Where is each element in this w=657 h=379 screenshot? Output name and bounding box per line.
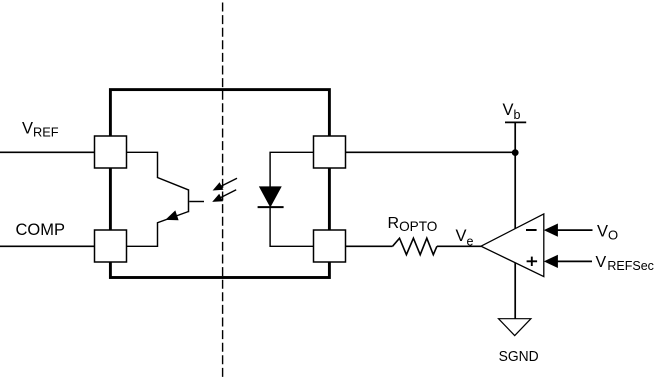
phototransistor Q1 base bar bbox=[188, 189, 190, 212]
pin pad 1 VREF bbox=[95, 136, 127, 168]
LED D1 cathode wire bbox=[270, 207, 313, 246]
wire top-right pin to Vb node bbox=[346, 151, 516, 153]
wire amplifier to ground bbox=[514, 262, 516, 318]
pin pad 2 COMP bbox=[95, 230, 127, 262]
pin pad LED cathode bbox=[314, 230, 346, 262]
svg-text:VREF: VREF bbox=[22, 120, 59, 140]
error amplifier U2 triangle bbox=[481, 214, 544, 277]
wire VREF input bbox=[0, 151, 95, 153]
phototransistor Q1 emitter arrowhead bbox=[165, 210, 178, 220]
LED D1 cathode bar bbox=[258, 206, 284, 208]
svg-text:Vb: Vb bbox=[503, 101, 521, 122]
svg-text:VREFSec: VREFSec bbox=[596, 254, 654, 273]
svg-text:COMP: COMP bbox=[16, 221, 66, 239]
phototransistor Q1 collector wire bbox=[127, 152, 189, 190]
light arrow 2 bbox=[212, 190, 236, 202]
wire resistor to Ve node bbox=[437, 245, 481, 247]
light arrow 1 bbox=[213, 178, 237, 190]
pin pad LED anode bbox=[314, 136, 346, 168]
LED D1 triangle bbox=[260, 187, 281, 207]
wire COMP input bbox=[0, 245, 95, 247]
phototransistor Q1 base stub bbox=[189, 201, 204, 203]
svg-text:Ve: Ve bbox=[456, 227, 474, 249]
wire VO input bbox=[556, 229, 593, 231]
plus input sign bbox=[527, 257, 538, 266]
wire Vb rail vertical upper bbox=[514, 122, 516, 228]
wire VREFSec input bbox=[556, 260, 592, 262]
node Vb bar bbox=[505, 121, 526, 123]
optocoupler U1 body bbox=[110, 90, 329, 278]
junction dot bbox=[512, 149, 519, 156]
svg-text:SGND: SGND bbox=[499, 348, 539, 365]
minus input sign bbox=[526, 229, 537, 231]
svg-text:ROPTO: ROPTO bbox=[388, 215, 438, 234]
wire bottom-right pin to resistor bbox=[346, 245, 393, 247]
ground SGND symbol bbox=[499, 319, 531, 336]
VO input arrowhead bbox=[544, 224, 558, 237]
VREFSec input arrowhead bbox=[544, 255, 558, 268]
phototransistor Q1 emitter wire bbox=[127, 212, 189, 247]
resistor ROPTO zigzag bbox=[393, 238, 437, 255]
isolation barrier dashed line bbox=[222, 3, 224, 378]
LED D1 anode wire bbox=[270, 152, 313, 187]
svg-text:VO: VO bbox=[597, 222, 618, 242]
